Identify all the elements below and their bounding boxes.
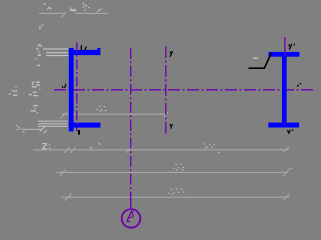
label y' (I-beam axis top) <box>289 44 295 50</box>
label y' (I-beam axis bottom) <box>287 129 293 134</box>
centerline axis y' flange crossing dots <box>284 52 286 57</box>
centerline axis x horizontal <box>54 89 315 91</box>
left text cluster z0= <box>9 91 18 95</box>
centerline axis A solid tail <box>130 193 132 209</box>
centerline axis 1 (channel) vertical <box>76 43 78 132</box>
label 1 (channel axis bottom) <box>78 130 80 135</box>
tick <box>127 147 133 153</box>
dimension z0 arrow line (bottom-left) <box>15 125 42 133</box>
tick <box>61 12 66 17</box>
weld leader note dash <box>253 57 258 59</box>
left text cluster z0 lower <box>30 106 38 111</box>
tick <box>60 170 66 177</box>
tick <box>40 126 46 131</box>
tick <box>96 8 103 12</box>
tick <box>283 170 289 177</box>
dimension D1 (top) line <box>39 8 108 17</box>
channel top flange tip <box>97 48 100 50</box>
dimension B3 line (y=197.2) <box>61 193 290 200</box>
centerline axis A vertical <box>130 48 132 209</box>
tick <box>164 112 169 117</box>
label Y (axis y bottom) <box>170 124 173 129</box>
I-beam top flange <box>269 52 300 57</box>
label x' (right end of axis x) <box>297 85 299 87</box>
channel top flange <box>69 50 101 55</box>
dimension mid (y=114) line <box>62 112 169 117</box>
label x (left end of axis x) <box>62 86 63 88</box>
dimension D1 text marks <box>43 4 76 11</box>
dimension B2 line (y=172.5) <box>56 169 293 177</box>
tick <box>44 130 47 133</box>
tick <box>62 112 67 117</box>
channel bottom flange <box>69 123 101 128</box>
channel top extension lines <box>36 44 69 55</box>
channel bottom extension lines <box>38 121 68 133</box>
tick <box>64 147 69 153</box>
letter A <box>127 211 134 222</box>
dimension B1 text z0 <box>42 144 46 149</box>
tick <box>283 194 289 201</box>
centerline axis y' vertical upper (I-beam) <box>284 37 286 52</box>
weld leader line <box>249 53 272 68</box>
tick <box>283 146 289 152</box>
tick <box>70 147 75 153</box>
channel web <box>69 48 74 131</box>
dimension B1 line (y=150) <box>33 146 289 153</box>
left small text cluster (flange callouts) <box>29 55 41 96</box>
label y (axis y top) <box>170 51 173 57</box>
tick <box>65 193 72 200</box>
I-beam bottom flange <box>268 123 299 128</box>
label 1 (channel axis top) <box>81 45 82 50</box>
I-beam web <box>282 57 287 123</box>
node marker circle A <box>122 209 141 228</box>
centerline axis y vertical <box>165 46 167 134</box>
